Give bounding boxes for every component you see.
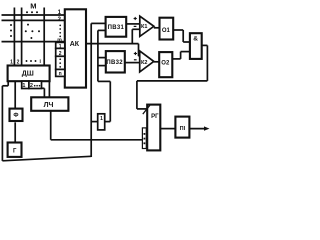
matrix continuation dots	[10, 11, 40, 39]
svg-text:1: 1	[22, 83, 25, 89]
svg-text:АК: АК	[70, 41, 80, 48]
block AK	[65, 9, 86, 87]
block LCh (counter)	[31, 97, 68, 111]
svg-text:Ф: Ф	[13, 113, 18, 119]
wire PVZ1 out to K1 plus	[126, 23, 140, 25]
block O1	[160, 18, 174, 40]
comparator K1	[140, 16, 154, 36]
wire vertical V1	[90, 23, 92, 157]
wire LCh to RG	[50, 111, 52, 140]
svg-text:Г: Г	[13, 148, 17, 154]
block PI	[175, 117, 189, 138]
wire K1 to O1	[154, 27, 160, 29]
svg-text:О2: О2	[161, 61, 170, 67]
block 1 (small box)	[98, 114, 105, 130]
svg-text:О1: О1	[162, 28, 171, 34]
svg-text:1: 1	[10, 60, 13, 66]
comparator K2	[140, 51, 154, 72]
wire O1 to AND	[173, 29, 183, 31]
AK row input labels 1,2,...,m	[57, 10, 62, 43]
DSh input labels 1 2 ... i	[10, 59, 41, 66]
wire F to G	[14, 122, 16, 142]
DSh output cell 2...	[29, 81, 42, 88]
wire DSh to F	[14, 81, 16, 108]
wire matrix row m	[2, 41, 65, 43]
block F	[10, 109, 23, 121]
block PVZ2	[106, 51, 125, 72]
svg-text:М: М	[30, 2, 36, 11]
svg-text:РГ: РГ	[151, 114, 159, 120]
svg-text:1: 1	[59, 44, 62, 50]
wire to PVZ1 input	[91, 22, 105, 24]
wire K1 minus from AK line	[131, 29, 133, 43]
wire matrix column 1	[13, 8, 15, 66]
wire RG to PI	[160, 128, 175, 130]
wire AK output horizontal	[86, 43, 139, 45]
wire AK line down to K2 plus	[138, 44, 140, 57]
svg-text:ДШ: ДШ	[22, 70, 34, 77]
wire PVZ1 pin2 to PVZ2	[98, 29, 106, 31]
svg-text:ПВ31: ПВ31	[108, 25, 125, 31]
svg-text:К1: К1	[141, 24, 147, 30]
svg-text:К2: К2	[141, 60, 147, 66]
wire matrix row 2	[2, 19, 65, 21]
wire O2 to AND	[172, 58, 180, 60]
wire bottom bus	[2, 156, 91, 161]
svg-text:ЛЧ: ЛЧ	[44, 102, 54, 109]
wire V1 to box1	[91, 121, 98, 123]
wire PI output arrow	[189, 128, 206, 130]
RG clock slash	[143, 105, 150, 114]
block RG (register)	[147, 105, 160, 151]
svg-text:2: 2	[59, 51, 62, 57]
matrix M label	[30, 2, 36, 11]
wire DSh left output to bottom bus	[7, 81, 9, 86]
svg-text:1: 1	[100, 116, 103, 122]
wire K2 to O2	[154, 61, 159, 63]
svg-text:2: 2	[17, 60, 20, 66]
wire matrix column last	[43, 8, 45, 66]
wire matrix column 2	[21, 8, 23, 66]
DSh output cell 1	[22, 81, 29, 88]
block PVZ1	[106, 17, 127, 37]
block DSh (decoder)	[8, 66, 50, 82]
svg-text:n: n	[59, 71, 62, 77]
wire matrix row 1	[2, 14, 65, 16]
svg-text:&: &	[193, 36, 198, 43]
block G (generator)	[8, 143, 22, 157]
svg-text:ПВ32: ПВ32	[106, 60, 123, 66]
wire PVZ2 out to K2 minus	[125, 62, 140, 64]
wire DSh outputs to LCh	[42, 87, 45, 89]
block O2	[159, 52, 172, 77]
AK column input cells 1,2,...,n	[56, 42, 65, 48]
wire AND output feedback to RG clock	[202, 44, 208, 46]
gate AND	[190, 33, 202, 59]
svg-text:2: 2	[30, 83, 33, 89]
svg-text:ПІ: ПІ	[180, 126, 186, 132]
RG input strip with dots	[142, 128, 146, 149]
